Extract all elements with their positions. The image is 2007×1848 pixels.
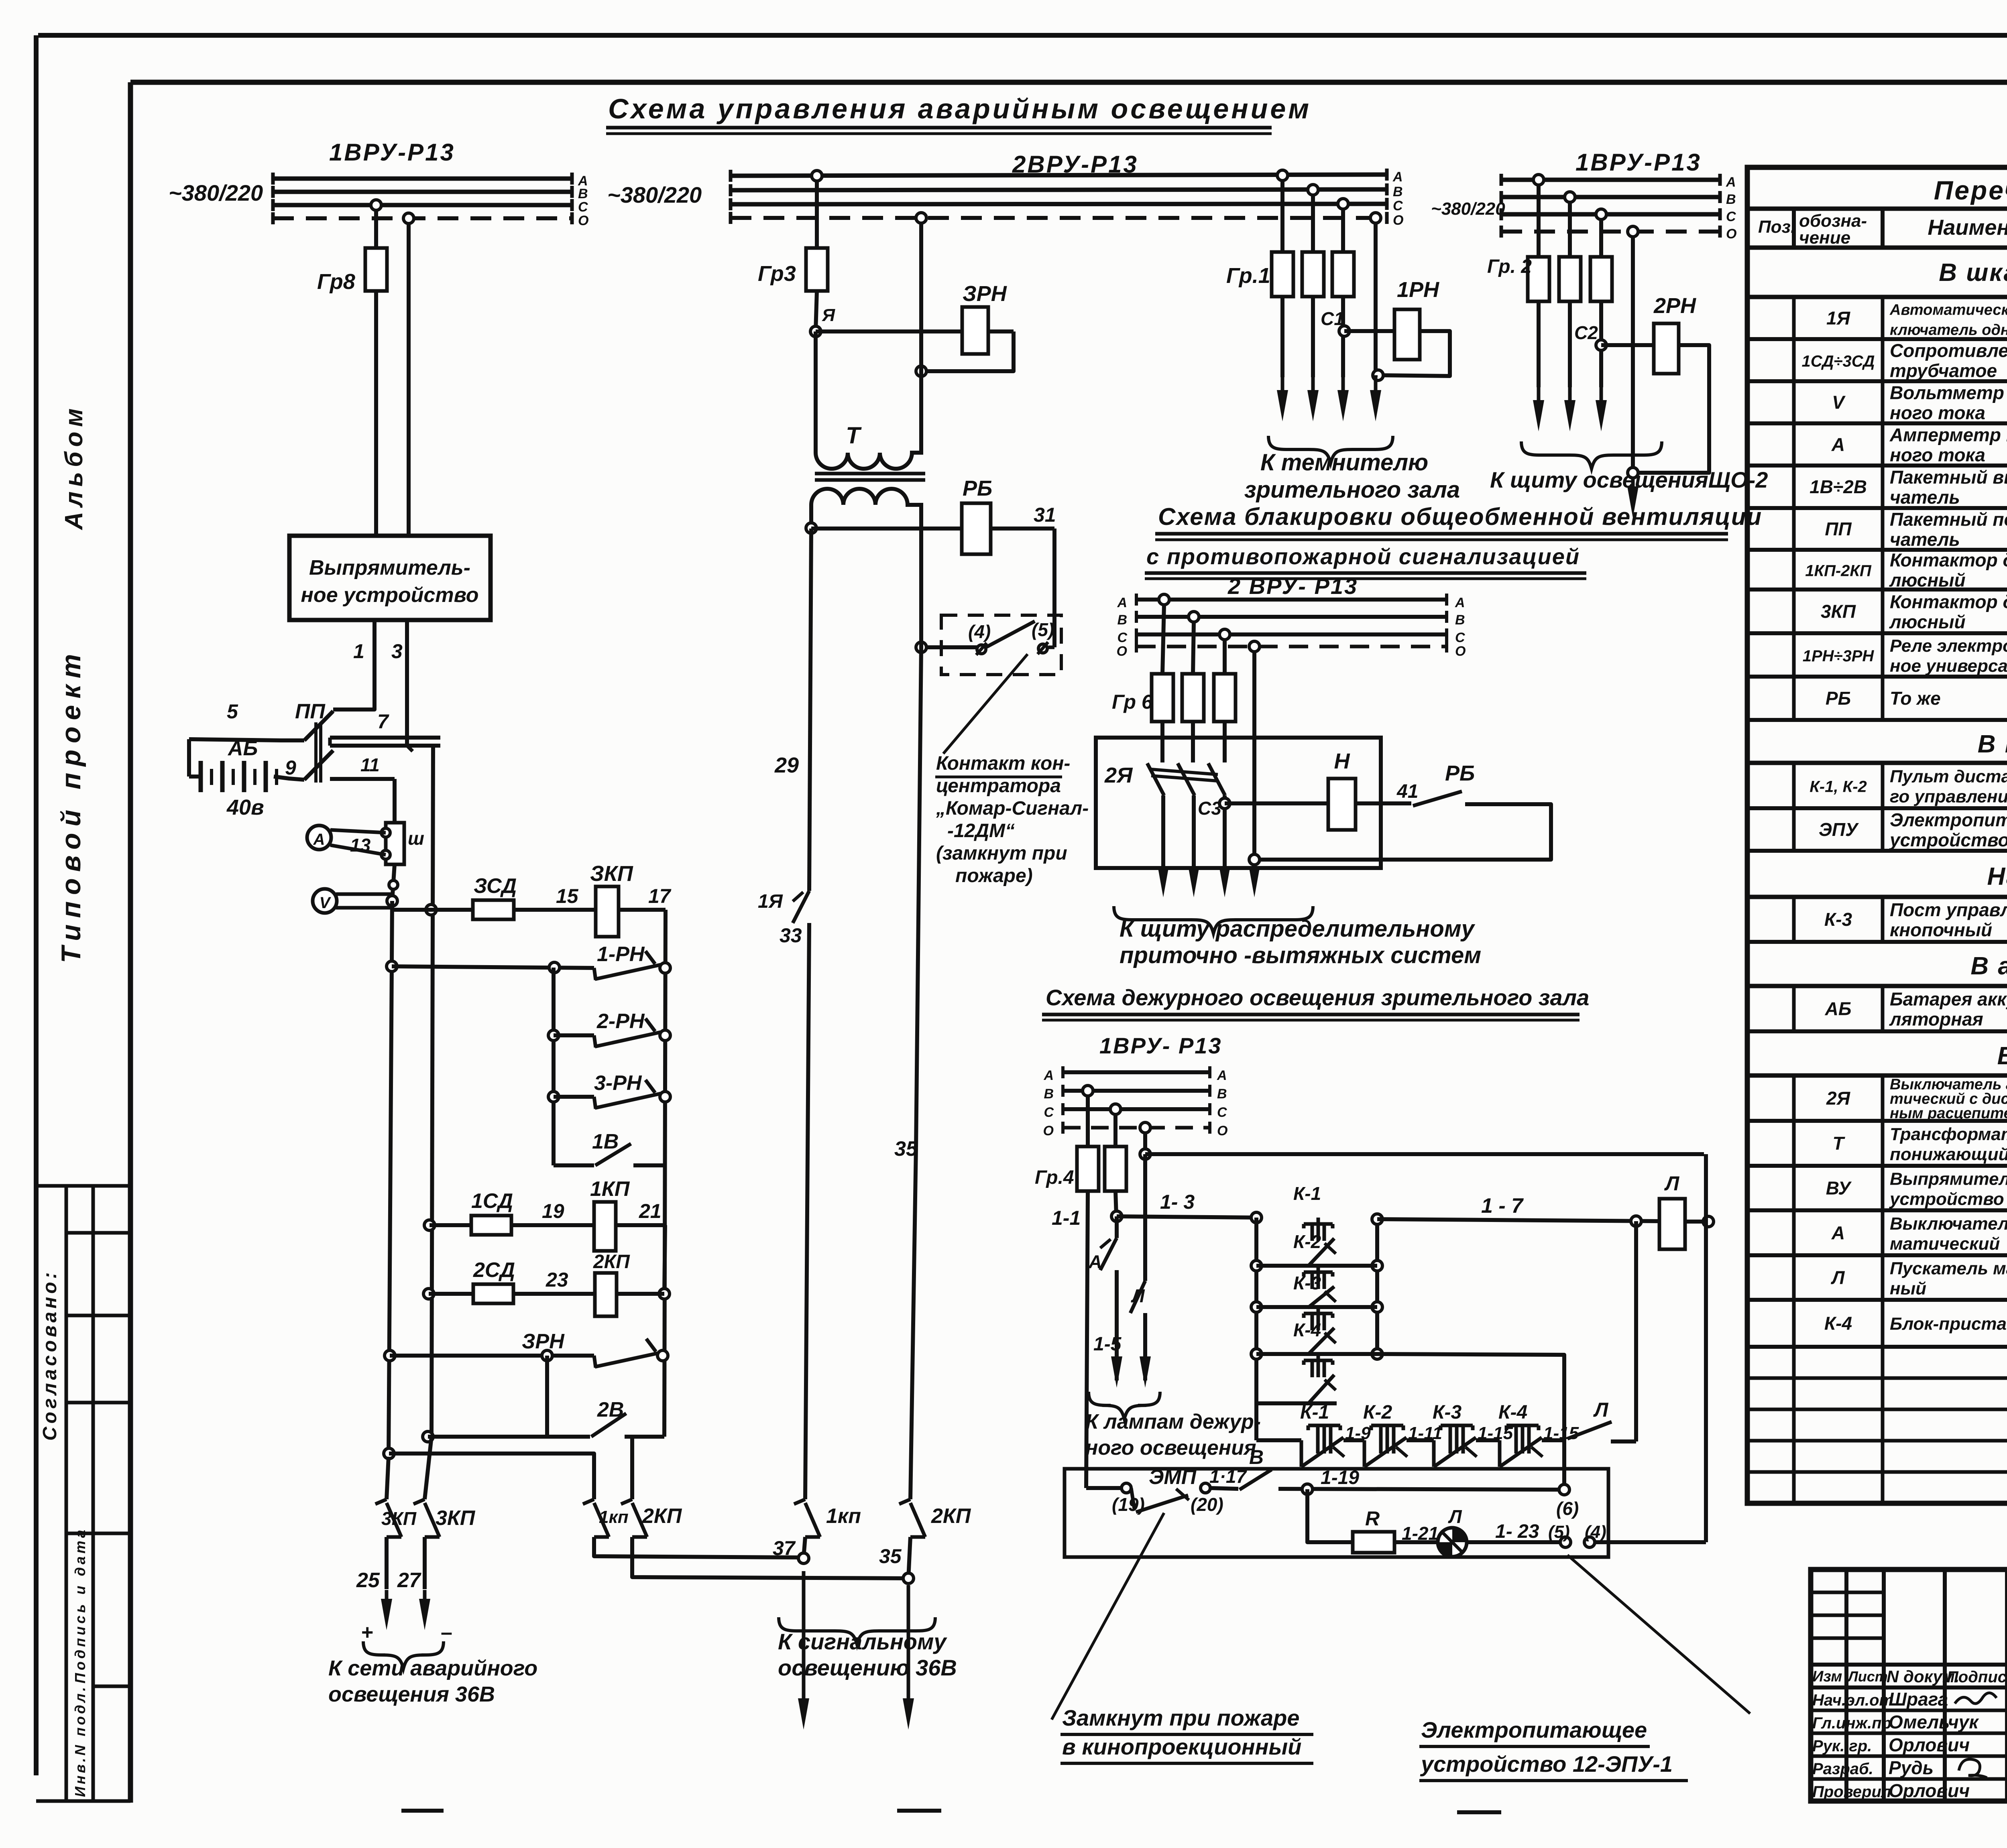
node O (Гр2) xyxy=(1628,226,1638,237)
svg-text:О: О xyxy=(1726,226,1736,242)
arrow lamps 1 xyxy=(1111,1356,1122,1388)
svg-text:К-2: К-2 xyxy=(1363,1402,1392,1423)
svg-text:О: О xyxy=(1455,644,1466,659)
contact blade (4)-(5) xyxy=(987,621,1035,647)
wire lamp to (5)(4) xyxy=(1467,1540,1560,1544)
wire Гр2 drop B xyxy=(1568,202,1572,257)
node 2РН return on O drop xyxy=(1628,468,1638,478)
wire fuse to Я node xyxy=(816,291,817,331)
svg-text:Л: Л xyxy=(1448,1506,1462,1527)
node blocking O xyxy=(1249,641,1260,652)
svg-text:С: С xyxy=(1726,209,1736,224)
wire 1-1 down xyxy=(1086,1191,1088,1488)
svg-text:1-1: 1-1 xyxy=(1052,1207,1081,1229)
svg-text:Лист: Лист xyxy=(1847,1668,1888,1685)
svg-text:1- 3: 1- 3 xyxy=(1160,1191,1195,1213)
bus 2ВРУ phase A xyxy=(731,175,1387,176)
node O bus (Гр1) xyxy=(1370,213,1381,223)
svg-text:1 - 7: 1 - 7 xyxy=(1481,1194,1524,1218)
node K ladder right top xyxy=(1372,1214,1382,1224)
battery АБ bottom wire to ПП xyxy=(274,777,304,780)
node ladder row4 right xyxy=(1372,1349,1382,1359)
bus 1ВРУ right neutral O (dashed) xyxy=(1501,230,1720,234)
table row Т xyxy=(1747,1164,2007,1168)
svg-text:ного тока: ного тока xyxy=(1890,445,1985,466)
arrows to распределительный щит xyxy=(1158,866,1169,897)
wire H to РБ contact xyxy=(1356,801,1411,805)
contact ЭМП terminal (19) xyxy=(1122,1483,1131,1493)
svg-text:1РН÷3РН: 1РН÷3РН xyxy=(1803,647,1875,665)
node C bus (Гр1) xyxy=(1338,199,1348,209)
svg-text:ПП: ПП xyxy=(295,700,326,723)
svg-text:1: 1 xyxy=(353,640,364,663)
svg-text:К-3: К-3 xyxy=(1293,1273,1321,1293)
svg-text:Т: Т xyxy=(846,423,862,449)
svg-text:Типовой проект: Типовой проект xyxy=(56,648,86,963)
wire C drop to rectifier xyxy=(374,210,378,248)
svg-text:19: 19 xyxy=(542,1200,564,1222)
fuse Гр2 A xyxy=(1528,257,1549,301)
K ladder left rail xyxy=(1254,1218,1258,1440)
contact 2-РН xyxy=(594,1035,596,1047)
svg-text:Гр 6: Гр 6 xyxy=(1112,691,1153,713)
table row К-4 xyxy=(1747,1345,2007,1349)
svg-text:С2: С2 xyxy=(1574,322,1598,343)
wire 17 to right rail xyxy=(619,908,666,912)
svg-text:1·17: 1·17 xyxy=(1209,1466,1247,1487)
svg-text:33: 33 xyxy=(780,924,802,947)
node V junction xyxy=(387,896,397,906)
svg-text:Альбом: Альбом xyxy=(60,404,88,531)
wire duty drop 1 (B) xyxy=(1086,1096,1090,1147)
node ladder row4 left xyxy=(1251,1349,1262,1359)
table row 1В÷2В xyxy=(1747,506,2007,510)
table row Л xyxy=(1747,1298,2007,1302)
wire 3 from rectifier xyxy=(405,620,409,746)
contactor contact 1КП (middle drop) xyxy=(794,1499,805,1504)
node on O drop xyxy=(916,366,926,376)
margin row Подпись и дата xyxy=(66,1532,130,1535)
node (5) xyxy=(1560,1537,1571,1547)
node A bus (Гр1) xyxy=(1277,170,1288,181)
svg-text:А: А xyxy=(1831,434,1845,455)
svg-text:Схема управления аварийным: Схема управления аварийным освещением xyxy=(608,93,1311,124)
switch А on lamp drop 1 xyxy=(1115,1216,1119,1238)
wire 1-19 drop to lamp row xyxy=(1307,1489,1353,1542)
svg-text:Рудь: Рудь xyxy=(1889,1757,1934,1778)
svg-text:(4): (4) xyxy=(968,621,991,642)
margin grid Согласовано block xyxy=(36,1184,130,1188)
svg-text:К-4: К-4 xyxy=(1293,1319,1321,1340)
breaker 2Я blades xyxy=(1147,763,1164,795)
svg-text:в кинопроекционный: в кинопроекционный xyxy=(1062,1734,1301,1759)
svg-text:(4): (4) xyxy=(1585,1522,1606,1542)
node on O bus xyxy=(403,213,414,224)
wire 2-РН row xyxy=(554,1033,594,1037)
svg-text:ного тока: ного тока xyxy=(1890,403,1985,423)
table row К-3 xyxy=(1747,940,2007,944)
svg-text:пожаре): пожаре) xyxy=(955,865,1033,886)
bus 1ВРУ-Р13 phase A xyxy=(273,177,572,181)
svg-text:С: С xyxy=(1117,630,1127,645)
wires Гр1 down to arrows xyxy=(1280,297,1284,377)
svg-text:Выпрямительное: Выпрямительное xyxy=(1890,1169,2007,1189)
contact К-1 (ladder) xyxy=(1317,1218,1320,1224)
inner drawing frame left xyxy=(128,82,133,1803)
wire duty O to return row xyxy=(1143,1133,1147,1154)
svg-text:К сигнальному: К сигнальному xyxy=(778,1629,947,1654)
fuse Гр1 B xyxy=(1302,252,1324,297)
node L2 at 2СД row xyxy=(423,1289,434,1299)
title block staff rows xyxy=(1811,1709,2007,1712)
bus 1ВРУ-Р13 neutral O (dashed) xyxy=(273,216,572,220)
wire row ЭМП xyxy=(1086,1486,1123,1490)
svg-text:С3: С3 xyxy=(1198,798,1221,819)
contact К-4 (ladder) xyxy=(1317,1354,1320,1360)
wires 2Я to box bottom xyxy=(1161,795,1165,868)
lamp Л xyxy=(1438,1528,1467,1557)
table row 2Я xyxy=(1747,1119,2007,1123)
svg-text:Л: Л xyxy=(1131,1285,1145,1306)
svg-text:1-21: 1-21 xyxy=(1402,1523,1439,1544)
node return row xyxy=(1140,1149,1150,1159)
svg-text:~380/220: ~380/220 xyxy=(1431,199,1505,219)
svg-text:В: В xyxy=(1044,1086,1054,1102)
node return on O drop xyxy=(1249,854,1260,865)
node B (Гр2) xyxy=(1565,192,1575,202)
wire 2РН return xyxy=(1633,345,1709,473)
svg-text:В: В xyxy=(1249,1446,1264,1468)
table row А xyxy=(1747,1253,2007,1257)
title block left grid xyxy=(1844,1569,1848,1801)
duty bus C xyxy=(1063,1107,1210,1111)
svg-text:Пакетный выклю-: Пакетный выклю- xyxy=(1890,467,2007,488)
switch ПП blade 2 xyxy=(304,750,333,780)
contact ЭМП xyxy=(1131,1488,1134,1509)
title block header row Изм/Лист/Nдокум/Подпись/Дата xyxy=(1811,1663,2007,1667)
svg-text:41: 41 xyxy=(1396,781,1418,802)
blocking bus O (dashed) xyxy=(1136,645,1447,649)
signature squiggle 1 xyxy=(1955,1693,1997,1704)
arrow к сигнальному 2 xyxy=(907,1585,910,1702)
svg-text:Пульт дистанционно-: Пульт дистанционно- xyxy=(1890,767,2007,787)
svg-text:Контакт кон-: Контакт кон- xyxy=(936,753,1070,774)
svg-text:АБ: АБ xyxy=(227,737,258,760)
node С3 xyxy=(1219,798,1230,809)
svg-text:чение: чение xyxy=(1799,228,1850,248)
switch ПП blade 1 xyxy=(304,711,333,740)
svg-text:РБ: РБ xyxy=(1445,761,1475,785)
right rail R xyxy=(664,910,666,1437)
svg-text:1Я: 1Я xyxy=(758,891,783,912)
arrow к сигнальному 1 xyxy=(802,1571,806,1702)
wire РБ right drop xyxy=(1052,529,1056,647)
svg-text:3КП: 3КП xyxy=(436,1506,476,1530)
arrow to emergency net + xyxy=(385,1590,389,1602)
table Перечень электроаппаратуры frame xyxy=(1747,167,2007,1503)
svg-text:9: 9 xyxy=(285,756,296,779)
node 1-3 row start xyxy=(1111,1211,1122,1222)
svg-text:Гр3: Гр3 xyxy=(758,262,796,286)
svg-text:К-1: К-1 xyxy=(1300,1402,1329,1423)
svg-text:–: – xyxy=(441,1621,452,1644)
svg-text:А: А xyxy=(1831,1222,1845,1243)
svg-text:К лампам дежур-: К лампам дежур- xyxy=(1085,1410,1261,1433)
svg-text:Шрага: Шрага xyxy=(1889,1689,1948,1710)
node C2 xyxy=(1596,340,1606,350)
node duty B xyxy=(1083,1086,1093,1096)
node blocking C xyxy=(1219,629,1230,640)
transformer T core xyxy=(815,472,925,476)
shunt Ш box xyxy=(386,823,404,864)
wire 2В row xyxy=(547,1435,590,1439)
node rail 35 xyxy=(903,1573,914,1584)
svg-text:29: 29 xyxy=(774,753,799,777)
table row 1СД÷3СД xyxy=(1747,379,2007,383)
svg-text:23: 23 xyxy=(546,1269,568,1291)
svg-text:устройство: устройство xyxy=(1889,1189,2004,1209)
svg-text:Замкнут при пожаре: Замкнут при пожаре xyxy=(1062,1705,1300,1730)
svg-text:~380/220: ~380/220 xyxy=(607,182,702,207)
svg-text:К сети аварийного: К сети аварийного xyxy=(328,1656,537,1680)
svg-text:2Я: 2Я xyxy=(1826,1088,1851,1109)
contact terminal (20) xyxy=(1201,1483,1210,1493)
table section На сцене xyxy=(1747,895,2007,899)
wires blocking drops xyxy=(1162,605,1164,674)
table row 1Я xyxy=(1747,337,2007,341)
wire Гр2 drop C xyxy=(1599,220,1603,257)
svg-text:Автоматический вы-: Автоматический вы- xyxy=(1889,302,2007,319)
wire right rail to interlock connector xyxy=(1377,1354,1564,1490)
wire 1-РН feed row xyxy=(392,966,594,968)
duty bus B xyxy=(1063,1089,1210,1093)
svg-text:Трансформатор: Трансформатор xyxy=(1890,1124,2007,1144)
svg-text:ПП: ПП xyxy=(1825,518,1852,539)
table section В аккумуляторной xyxy=(1747,984,2007,988)
callout pointer Замкнут при пожаре xyxy=(1052,1513,1164,1720)
ammeter A capsule wires 13 xyxy=(330,830,386,833)
svg-text:Т: Т xyxy=(1832,1133,1845,1154)
svg-text:1В: 1В xyxy=(592,1130,619,1153)
svg-text:В щитовой: В щитовой xyxy=(1997,1042,2007,1070)
contact К-4 (interlock) xyxy=(1506,1424,1539,1427)
contactor contact 2КП (pair) xyxy=(621,1499,632,1504)
switch Л on lamp drop 2 xyxy=(1143,1154,1147,1281)
node K ladder left top xyxy=(1251,1212,1262,1223)
node O bus drop xyxy=(916,213,926,223)
node Я xyxy=(810,326,821,337)
svg-text:(6): (6) xyxy=(1556,1498,1579,1519)
svg-text:ный: ный xyxy=(1890,1279,1926,1299)
wire from 2В row down (2КП drop) xyxy=(630,1437,634,1499)
node blocking B xyxy=(1189,612,1199,622)
svg-text:Пост управления: Пост управления xyxy=(1890,899,2007,920)
svg-text:Инв.N подл.: Инв.N подл. xyxy=(72,1685,88,1797)
svg-text:2СД: 2СД xyxy=(473,1258,515,1282)
svg-text:1- 23: 1- 23 xyxy=(1495,1521,1539,1542)
svg-text:К-2: К-2 xyxy=(1293,1231,1321,1252)
table column header row xyxy=(1747,246,2007,250)
node L2 at ЗСД row xyxy=(426,905,436,915)
table section В щитовой xyxy=(1747,1073,2007,1078)
svg-text:Л: Л xyxy=(1831,1267,1845,1288)
contactor coil 1КП xyxy=(594,1202,616,1251)
svg-text:2КП: 2КП xyxy=(593,1251,630,1273)
wire O return right vertical xyxy=(1704,1154,1708,1542)
relay coil ЗРН xyxy=(962,307,988,354)
svg-text:Гр.1: Гр.1 xyxy=(1226,264,1270,288)
node ladder row3 left xyxy=(1251,1302,1262,1312)
wire row 1-3 xyxy=(1117,1216,1256,1218)
svg-text:5: 5 xyxy=(227,700,238,723)
svg-text:Я: Я xyxy=(822,305,835,325)
svg-text:РБ: РБ xyxy=(1826,688,1851,709)
svg-text:К щиту распределительному: К щиту распределительному xyxy=(1120,916,1476,942)
svg-text:люсный: люсный xyxy=(1889,612,1966,632)
svg-text:освещению 36В: освещению 36В xyxy=(778,1655,957,1680)
svg-text:Подпись: Подпись xyxy=(1947,1668,2007,1686)
fuse Гр6 C xyxy=(1214,674,1236,722)
switch 2В xyxy=(591,1413,626,1437)
table row К-1,К-2 xyxy=(1747,806,2007,810)
svg-text:О: О xyxy=(1043,1123,1054,1138)
svg-text:27: 27 xyxy=(397,1569,421,1592)
bus 1ВРУ right phase C xyxy=(1501,212,1720,217)
node A bus Гр3 xyxy=(812,171,822,181)
contact К-2 (interlock) xyxy=(1371,1424,1403,1427)
svg-text:(20): (20) xyxy=(1191,1494,1223,1515)
svg-text:чатель: чатель xyxy=(1890,487,1960,508)
brace lamps xyxy=(1089,1392,1160,1419)
bus 2ВРУ phase B xyxy=(731,189,1387,190)
wires fuses to box xyxy=(1160,722,1164,762)
node ladder left top xyxy=(549,962,560,973)
svg-text:зрительного зала: зрительного зала xyxy=(1244,477,1460,503)
svg-text:РБ: РБ xyxy=(963,476,992,500)
arrows Гр2 xyxy=(1537,385,1541,403)
svg-text:Омельчук: Омельчук xyxy=(1889,1712,1979,1732)
battery АБ top wire xyxy=(189,739,304,740)
svg-text:трубчатое: трубчатое xyxy=(1890,360,1997,381)
node (4) xyxy=(1584,1537,1595,1547)
switch Л (interlock end) xyxy=(1567,1422,1612,1439)
node blocking A xyxy=(1159,594,1169,605)
resistor ЗСД xyxy=(473,900,514,919)
brace emergency net xyxy=(363,1641,444,1669)
svg-text:Орлович: Орлович xyxy=(1889,1734,1970,1755)
svg-text:Перечень электроаппаратуры: Перечень электроаппаратуры xyxy=(1934,175,2007,205)
svg-text:ляторная: ляторная xyxy=(1889,1009,1983,1030)
svg-text:ключатель однополюсный: ключатель однополюсный xyxy=(1890,322,2007,339)
node ladder row2 left xyxy=(1251,1260,1262,1271)
svg-text:Блок-приставка: Блок-приставка xyxy=(1890,1314,2007,1334)
svg-text:В кинопроекционной: В кинопроекционной xyxy=(1978,730,2007,758)
node rail 37 xyxy=(798,1553,809,1563)
contact (4)-(5) row xyxy=(1048,646,1054,649)
voltmeter V xyxy=(313,889,337,913)
svg-text:3: 3 xyxy=(391,640,403,663)
svg-text:ным расцепителем: ным расцепителем xyxy=(1890,1105,2007,1122)
svg-text:Батарея аккуму-: Батарея аккуму- xyxy=(1890,989,2007,1010)
contactor contact 1КП (pair) xyxy=(583,1499,594,1504)
wire ЗРН return L xyxy=(921,331,1014,371)
K ladder right rail xyxy=(1375,1219,1379,1354)
svg-text:1Я: 1Я xyxy=(1826,308,1851,329)
inner drawing frame top xyxy=(130,80,2007,85)
svg-text:го управления: го управления xyxy=(1890,787,2007,807)
svg-text:-12ДМ“: -12ДМ“ xyxy=(947,820,1015,842)
svg-text:А: А xyxy=(1043,1068,1054,1083)
wire return row to right xyxy=(1145,1152,1704,1156)
svg-text:ного освещения: ного освещения xyxy=(1085,1436,1256,1460)
svg-text:Реле электромагнит-: Реле электромагнит- xyxy=(1890,636,2007,656)
svg-text:Электропитающее: Электропитающее xyxy=(1421,1717,1647,1742)
table row 3КП xyxy=(1747,631,2007,635)
brace к щиту xyxy=(1114,906,1313,933)
svg-text:V: V xyxy=(1832,392,1846,413)
svg-text:(19): (19) xyxy=(1112,1494,1145,1515)
svg-text:То же: То же xyxy=(1890,688,1941,709)
switch В xyxy=(1240,1470,1272,1490)
svg-text:2-РН: 2-РН xyxy=(596,1010,645,1033)
fuse Гр1 A xyxy=(1272,252,1293,297)
wire C2 to 2РН xyxy=(1601,343,1654,347)
table row АБ xyxy=(1747,1029,2007,1033)
svg-text:+: + xyxy=(361,1621,373,1644)
svg-text:с противопожарной сигнализац: с противопожарной сигнализацией xyxy=(1146,544,1580,569)
svg-text:К-4: К-4 xyxy=(1498,1402,1527,1423)
fuse Гр6 B xyxy=(1182,674,1204,722)
svg-text:1ВРУ- Р13: 1ВРУ- Р13 xyxy=(1099,1033,1222,1058)
wire Гр2 drop O xyxy=(1631,237,1635,473)
svg-text:К-3: К-3 xyxy=(1824,909,1852,930)
svg-text:3КП: 3КП xyxy=(381,1508,417,1529)
svg-text:1-19: 1-19 xyxy=(1321,1467,1359,1488)
shunt terminals xyxy=(381,828,390,837)
margin bottom line xyxy=(36,1799,130,1803)
svg-text:ЗКП: ЗКП xyxy=(590,862,633,886)
relay coil 2РН xyxy=(1654,323,1679,374)
svg-text:„Комар-Сигнал-: „Комар-Сигнал- xyxy=(936,798,1089,819)
svg-text:Гр.4: Гр.4 xyxy=(1035,1167,1074,1188)
relay coil РБ xyxy=(962,503,991,554)
table row ПП xyxy=(1747,548,2007,552)
arrow lamps 2 xyxy=(1140,1356,1151,1388)
svg-text:2В: 2В xyxy=(597,1398,624,1421)
blocking bus B xyxy=(1136,615,1447,619)
wire Гр2 drop A xyxy=(1537,185,1541,257)
svg-text:1КП-2КП: 1КП-2КП xyxy=(1805,562,1872,580)
svg-text:С: С xyxy=(578,199,588,215)
svg-text:ЗРН: ЗРН xyxy=(963,282,1007,306)
svg-text:Схема блакировки общеобменно: Схема блакировки общеобменной вентиляции xyxy=(1158,503,1762,530)
svg-text:Пакетный переклю-: Пакетный переклю- xyxy=(1890,509,2007,530)
bus 2ВРУ neutral O (dashed) xyxy=(731,216,1387,220)
wire to В switch xyxy=(1210,1488,1238,1489)
margin row Инв N подл xyxy=(93,1685,130,1688)
svg-text:1ВРУ-Р13: 1ВРУ-Р13 xyxy=(329,139,455,166)
svg-text:1КП: 1КП xyxy=(590,1177,630,1201)
bus 2ВРУ phase C xyxy=(731,204,1387,204)
svg-text:35: 35 xyxy=(894,1137,918,1161)
svg-text:Подпись и дата: Подпись и дата xyxy=(72,1527,88,1683)
node duty C xyxy=(1110,1104,1121,1114)
node on wire 35 xyxy=(916,642,926,653)
wire 2КП to rail xyxy=(617,1292,664,1296)
node ladder row3 right xyxy=(1372,1302,1382,1312)
relay coil Н xyxy=(1328,779,1356,830)
svg-text:чатель: чатель xyxy=(1890,529,1960,550)
